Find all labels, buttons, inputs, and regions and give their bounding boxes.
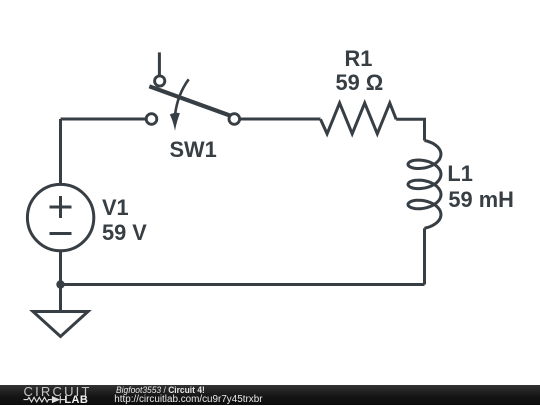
switch SW1 arrowhead (170, 113, 180, 131)
label L1 value 59 mH (448, 187, 513, 212)
footer watermark bar (0, 385, 540, 406)
switch SW1 top stub wire (158, 52, 161, 75)
ground stub wire (59, 285, 62, 312)
wire: right vertical rail below inductor to bottom-right corner (423, 228, 426, 284)
inductor L1 coil (408, 141, 441, 229)
CircuitLab logo LAB (64, 395, 88, 406)
V1 plus sign (50, 196, 72, 218)
footer url line (114, 395, 262, 405)
switch SW1 actuation arrow arc (175, 79, 189, 115)
switch SW1 left terminal circle (146, 114, 157, 125)
V1 minus sign (50, 232, 72, 235)
switch SW1 right terminal circle (229, 114, 240, 125)
label V1 (102, 195, 129, 220)
wire: top-left horizontal from left rail to switch left terminal (61, 118, 147, 121)
label R1 value 59 ohm (336, 70, 384, 95)
label V1 value 59 V (102, 220, 147, 245)
resistor R1 zigzag (321, 103, 397, 134)
footer title line (116, 386, 205, 396)
wire: resistor to top-right corner and down to inductor (396, 119, 424, 140)
label R1 value pair (345, 46, 373, 71)
CircuitLab logo wire-resistor-diode glyph (23, 394, 69, 406)
switch SW1 lever arm (149, 86, 230, 115)
voltage source V1 circle (27, 184, 93, 250)
wire: left vertical rail upper (V1 top to top wire) (59, 119, 62, 184)
label L1 (447, 161, 472, 186)
label SW1 (170, 137, 217, 162)
switch SW1 top throw circle (155, 76, 165, 86)
junction node at V1 bottom / ground (56, 280, 64, 288)
wire: left vertical rail lower (V1 bottom to bottom rail) (59, 251, 62, 285)
ground symbol triangle (33, 312, 88, 337)
CircuitLab logo wordmark CIRCUIT (24, 385, 92, 398)
wire: bottom horizontal rail (61, 283, 425, 286)
wire: switch right terminal to resistor (240, 118, 321, 121)
